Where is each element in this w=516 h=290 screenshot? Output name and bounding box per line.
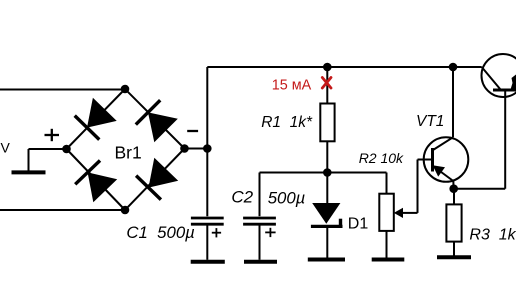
svg-text:R1 1k*: R1 1k* — [261, 114, 313, 131]
svg-text:15 мА: 15 мА — [272, 77, 312, 93]
svg-text:C2: C2 — [231, 188, 253, 207]
svg-text:500µ: 500µ — [268, 189, 306, 208]
svg-text:R2 10k: R2 10k — [359, 150, 404, 166]
svg-text:C1 500µ: C1 500µ — [126, 223, 194, 242]
svg-text:V: V — [1, 139, 11, 155]
svg-text:VT1: VT1 — [416, 113, 444, 130]
svg-text:R3 1k: R3 1k — [469, 226, 516, 243]
svg-text:D1: D1 — [348, 215, 369, 232]
svg-text:Br1: Br1 — [115, 142, 142, 162]
